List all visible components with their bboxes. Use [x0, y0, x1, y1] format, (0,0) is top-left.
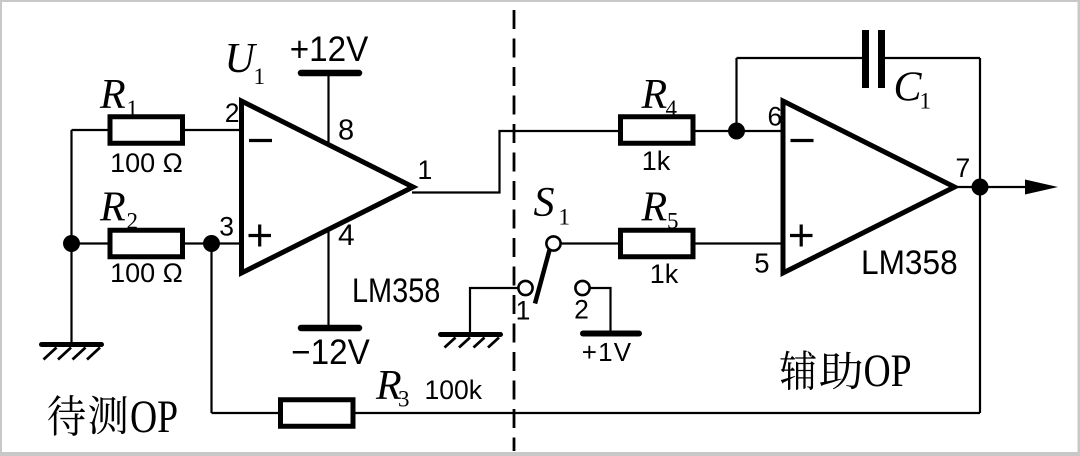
svg-text:+1V: +1V — [582, 337, 633, 367]
svg-text:1k: 1k — [642, 146, 671, 176]
svg-text:R: R — [99, 185, 126, 231]
arrowhead output — [1025, 180, 1058, 195]
wire R1 to U1 pin2 — [181, 129, 244, 131]
switch S1 — [518, 236, 589, 303]
node junction left input — [63, 235, 80, 252]
svg-text:3: 3 — [398, 387, 410, 412]
svg-text:100k: 100k — [425, 375, 483, 405]
svg-text:LM358: LM358 — [861, 243, 958, 281]
svg-text:4: 4 — [338, 219, 355, 252]
svg-text:C: C — [894, 65, 923, 111]
annotation auxiliary op chinese — [780, 345, 911, 397]
resistor R4 — [621, 117, 694, 144]
svg-text:3: 3 — [219, 212, 234, 242]
svg-text:2: 2 — [225, 98, 240, 128]
svg-text:5: 5 — [754, 248, 769, 279]
wire U2 pin7 output with arrow — [954, 186, 1027, 188]
svg-text:1k: 1k — [650, 259, 679, 289]
power +12V bar — [301, 70, 359, 77]
wire R5 to U2 pin5 — [692, 242, 785, 244]
svg-text:R: R — [99, 72, 126, 118]
svg-text:2: 2 — [127, 209, 139, 234]
svg-text:8: 8 — [338, 115, 354, 147]
power +1V bar — [583, 331, 639, 337]
wire switch pos2 to +1V — [590, 288, 611, 332]
node junction pin3 tap — [203, 235, 220, 252]
resistor R5 — [621, 230, 694, 257]
annotation DUT op chinese — [48, 391, 178, 443]
op-amp U1 — [242, 101, 414, 273]
svg-text:2: 2 — [574, 295, 589, 325]
wire R4 to U2 pin6 — [692, 130, 785, 132]
resistor R1 — [110, 117, 183, 144]
node junction pin6 feedback — [728, 123, 745, 140]
wire left input vertical — [70, 130, 72, 244]
svg-text:1: 1 — [254, 64, 266, 89]
wire C1 right to output branch — [885, 57, 980, 59]
partition dashed line — [513, 10, 516, 451]
resistor R2 — [110, 230, 183, 257]
wire bottom feedback through R3 — [212, 412, 981, 414]
wire R1 input lead left — [72, 129, 113, 131]
node junction output — [972, 179, 989, 196]
wire U1 pin1 output — [412, 131, 622, 193]
svg-text:LM358: LM358 — [352, 271, 440, 310]
wire feedback vertical at node — [735, 58, 737, 131]
power -12V bar — [301, 325, 359, 332]
wire ground stem left — [70, 244, 72, 344]
svg-text:S: S — [534, 180, 555, 226]
svg-text:100 Ω: 100 Ω — [110, 148, 183, 178]
ground switch pos1 — [441, 335, 501, 348]
resistor R3 — [281, 400, 354, 427]
wire output right vertical — [979, 58, 981, 413]
svg-text:−12V: −12V — [291, 333, 370, 372]
svg-text:5: 5 — [667, 209, 679, 234]
wire switch pos1 to ground — [470, 288, 519, 333]
wire feedback top to C1 left — [737, 57, 863, 59]
capacitor C1 — [866, 30, 882, 88]
ground left input — [42, 345, 102, 360]
op-amp U2 — [783, 101, 955, 273]
svg-text:4: 4 — [666, 96, 678, 121]
wire U1 pin4 to -12V — [327, 230, 329, 328]
svg-text:OP: OP — [130, 391, 178, 443]
wire switch common to R5 — [560, 242, 622, 244]
svg-text:1: 1 — [127, 96, 139, 121]
svg-text:1: 1 — [516, 296, 531, 326]
wire U1 pin8 to +12V — [327, 73, 329, 145]
svg-text:R: R — [641, 72, 668, 118]
wire R2 to U1 pin3 — [181, 242, 244, 244]
svg-text:1: 1 — [418, 155, 433, 185]
wire R2 input lead left — [72, 242, 113, 244]
svg-text:1: 1 — [920, 89, 932, 114]
svg-text:R: R — [641, 185, 668, 231]
svg-text:7: 7 — [956, 153, 971, 183]
svg-text:+12V: +12V — [290, 30, 369, 69]
svg-text:1: 1 — [559, 205, 571, 230]
svg-text:6: 6 — [768, 102, 783, 132]
svg-text:OP: OP — [864, 345, 912, 397]
svg-text:100 Ω: 100 Ω — [110, 258, 183, 288]
wire feedback tap vertical left — [210, 244, 212, 414]
